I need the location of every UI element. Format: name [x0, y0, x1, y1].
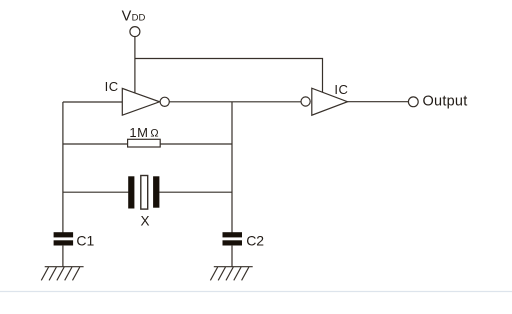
- svg-text:IC: IC: [334, 82, 348, 97]
- svg-text:X: X: [141, 213, 150, 228]
- svg-text:Ω: Ω: [150, 127, 158, 139]
- svg-text:DD: DD: [132, 12, 146, 23]
- svg-text:V: V: [122, 8, 132, 24]
- svg-text:C1: C1: [76, 233, 94, 249]
- svg-text:C2: C2: [246, 233, 264, 249]
- svg-text:1M: 1M: [129, 125, 148, 140]
- svg-text:IC: IC: [105, 79, 119, 94]
- svg-text:Output: Output: [423, 93, 468, 109]
